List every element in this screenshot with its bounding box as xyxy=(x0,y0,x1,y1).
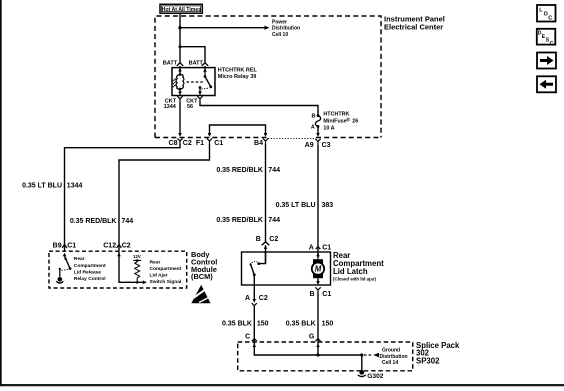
svg-text:C2: C2 xyxy=(183,140,192,147)
label Rear Compartment Lid Release Relay Control xyxy=(74,256,106,282)
svg-text:0.35 RED/BLK: 0.35 RED/BLK xyxy=(216,167,263,174)
label 0.35 RED/BLK 744 left xyxy=(70,218,133,225)
BCM lid release driver switch xyxy=(56,253,71,283)
svg-text:Power: Power xyxy=(272,19,287,25)
connector caret C12/C2 xyxy=(117,244,122,248)
svg-text:G302: G302 xyxy=(367,373,383,380)
label HTCHTRK MiniFuse 26 10 A xyxy=(323,111,358,131)
label C8 C2 xyxy=(169,140,192,147)
svg-text:26: 26 xyxy=(352,119,358,125)
connector A9/C3 terminal xyxy=(315,139,320,145)
svg-text:C2: C2 xyxy=(269,236,278,243)
arrow into splice C xyxy=(253,344,257,348)
label Power Distribution Cell 10 xyxy=(272,19,300,38)
svg-text:C1: C1 xyxy=(322,244,331,251)
svg-text:HTCHTRK REL: HTCHTRK REL xyxy=(218,68,258,74)
label B C2 xyxy=(256,236,279,243)
svg-text:C8: C8 xyxy=(169,140,178,147)
wire from Hot At All Times down xyxy=(179,13,181,63)
node battery feed tee xyxy=(179,45,182,48)
svg-text:B: B xyxy=(309,291,314,298)
label Instrument Panel Electrical Center xyxy=(384,15,445,32)
svg-text:A9: A9 xyxy=(305,142,314,149)
relay switch xyxy=(198,68,212,95)
label B C1 xyxy=(309,291,331,298)
ground distribution dashed reference arrow xyxy=(364,353,379,358)
label 0.35 RED/BLK 744 upper right xyxy=(216,167,280,174)
svg-text:C1: C1 xyxy=(322,291,331,298)
label Rear Compartment Lid Ajar Switch Signal xyxy=(150,260,182,285)
svg-text:B: B xyxy=(256,236,261,243)
svg-text:744: 744 xyxy=(268,167,280,174)
svg-text:Electrical Center: Electrical Center xyxy=(384,23,443,32)
wire CKT 56 to fuse xyxy=(200,102,318,115)
svg-text:Cell 14: Cell 14 xyxy=(382,360,398,366)
svg-text:Relay Control: Relay Control xyxy=(74,276,106,282)
wire jumper F1 to B4 xyxy=(208,125,268,137)
page left edge bar xyxy=(0,0,2,386)
connector caret BATT left xyxy=(177,63,183,66)
label C12 C2 xyxy=(103,242,130,249)
svg-text:744: 744 xyxy=(122,218,134,225)
wire BATT right into relay xyxy=(204,66,206,70)
svg-text:Compartment: Compartment xyxy=(74,263,106,269)
wire BATT left into relay xyxy=(179,66,181,70)
svg-text:C2: C2 xyxy=(122,242,131,249)
node junction to power distribution xyxy=(178,26,181,29)
svg-text:0.35 LT BLU: 0.35 LT BLU xyxy=(22,182,62,189)
svg-text:C: C xyxy=(548,16,552,22)
svg-text:Rear: Rear xyxy=(74,256,85,262)
label 0.35 LT BLU 383 xyxy=(276,202,334,209)
button next arrow xyxy=(537,53,556,69)
svg-text:A: A xyxy=(309,244,314,251)
svg-text:0.35 BLK: 0.35 BLK xyxy=(222,321,252,328)
node ground drop junction xyxy=(360,353,363,356)
connector caret A/C1 xyxy=(316,246,321,249)
svg-text:C2: C2 xyxy=(259,295,268,302)
button prev arrow xyxy=(537,76,556,92)
splice pack 302 dashed box xyxy=(238,342,413,371)
svg-text:Hot At All Times: Hot At All Times xyxy=(162,7,202,13)
latch ajar switch xyxy=(250,252,266,285)
label F1 C1 xyxy=(196,140,223,147)
arrow into splice G xyxy=(316,344,320,348)
terminal Y CKT 56 xyxy=(197,96,202,101)
svg-text:F1: F1 xyxy=(196,140,204,147)
svg-text:Switch Signal: Switch Signal xyxy=(150,279,182,285)
svg-text:G: G xyxy=(309,333,315,340)
svg-text:C: C xyxy=(550,41,554,47)
node resistor junction xyxy=(136,281,139,284)
label HTCHTRK REL Micro Relay 39 xyxy=(218,68,258,80)
connector caret B9/C1 xyxy=(62,244,67,248)
svg-text:C1: C1 xyxy=(67,242,76,249)
connector caret B/C2 xyxy=(262,242,270,245)
connector B4 terminal xyxy=(263,138,268,144)
svg-text:Lid Latch: Lid Latch xyxy=(333,267,368,276)
label A9 C3 xyxy=(305,142,331,149)
wire C2 to switch signal xyxy=(119,251,143,282)
svg-text:(BCM): (BCM) xyxy=(191,272,213,281)
svg-text:12V: 12V xyxy=(133,254,141,259)
svg-text:®: ® xyxy=(346,117,350,124)
page bottom border xyxy=(0,384,564,386)
label 0.35 RED/BLK 744 lower right xyxy=(216,217,280,224)
svg-text:Lid Ajar: Lid Ajar xyxy=(150,272,168,278)
label A C1 xyxy=(309,244,332,251)
rear compartment lid latch box xyxy=(242,252,331,285)
svg-text:B: B xyxy=(311,114,315,120)
power rail bar 12V xyxy=(133,259,141,262)
svg-text:Distribution: Distribution xyxy=(272,26,300,32)
svg-text:Compartment: Compartment xyxy=(150,266,182,272)
svg-text:0.35 LT BLU: 0.35 LT BLU xyxy=(276,202,316,209)
node G junction xyxy=(316,353,319,356)
wire splice bus xyxy=(254,342,361,356)
wire branch to second BATT xyxy=(180,47,205,63)
svg-text:(Closed with lid ajar): (Closed with lid ajar) xyxy=(333,277,376,282)
svg-text:Rear: Rear xyxy=(150,260,161,266)
svg-text:Ground: Ground xyxy=(382,348,400,354)
svg-text:0.35 BLK: 0.35 BLK xyxy=(286,321,316,328)
svg-text:Lid Release: Lid Release xyxy=(74,269,101,275)
svg-text:150: 150 xyxy=(322,321,334,328)
wire B/C1 to splice G xyxy=(317,293,319,342)
svg-text:Micro Relay 39: Micro Relay 39 xyxy=(218,74,257,80)
connector C8/C2 terminal xyxy=(177,138,182,144)
relay coil xyxy=(173,68,184,95)
svg-text:BATT: BATT xyxy=(189,60,204,66)
terminal Y CKT 1344 xyxy=(177,96,182,101)
svg-text:O: O xyxy=(544,12,548,18)
svg-text:C12: C12 xyxy=(103,242,116,249)
wire A9/C3 to A/C1 xyxy=(317,144,319,251)
label 0.35 LT BLU 1344 xyxy=(22,182,82,189)
button LOC xyxy=(537,5,556,22)
svg-text:150: 150 xyxy=(257,321,269,328)
instrument panel electrical center dashed box xyxy=(155,16,381,139)
label CKT 1344 xyxy=(164,98,177,110)
connector caret splice G xyxy=(316,339,321,342)
svg-text:744: 744 xyxy=(268,217,280,224)
wire A/C2 to splice C xyxy=(253,306,255,342)
fuse HTCHTRK MiniFuse 26 xyxy=(311,114,321,131)
svg-text:SP302: SP302 xyxy=(416,356,440,365)
wire G drop to bus xyxy=(317,342,319,356)
svg-text:10 A: 10 A xyxy=(323,126,334,132)
svg-text:A: A xyxy=(245,295,250,302)
svg-text:Cell 10: Cell 10 xyxy=(272,32,288,38)
wire fuse to A9 xyxy=(317,127,319,134)
svg-text:383: 383 xyxy=(322,202,334,209)
connector F1/C1 terminal xyxy=(207,138,212,144)
label 0.35 BLK 150 left xyxy=(222,321,269,328)
svg-text:56: 56 xyxy=(187,104,193,110)
svg-text:C: C xyxy=(245,333,250,340)
arrow into latch B/C2 xyxy=(264,245,268,249)
connector caret splice C xyxy=(252,339,257,342)
wire C8 to B9/C1 xyxy=(65,144,181,251)
relay coil-switch dashed link xyxy=(187,81,204,83)
svg-text:C3: C3 xyxy=(322,142,331,149)
relay HTCHTRK REL box xyxy=(172,68,215,96)
button DESC xyxy=(537,29,556,47)
wire CKT 1344 to C8 xyxy=(179,102,181,134)
label Body Control Module (BCM) xyxy=(191,250,217,281)
latch motor M xyxy=(312,252,324,285)
label Ground Distribution Cell 14 xyxy=(380,348,408,367)
resistor pull-up 12V xyxy=(135,261,140,283)
svg-text:0.35 RED/BLK: 0.35 RED/BLK xyxy=(216,217,263,224)
wire to ground G302 xyxy=(361,355,363,371)
latch exit A/C2 arrow xyxy=(252,285,257,306)
svg-text:1344: 1344 xyxy=(164,104,177,110)
BCM lid ajar input arrow xyxy=(117,253,121,257)
label Rear Compartment Lid Latch xyxy=(333,251,384,282)
wire B4 to B/C2 xyxy=(265,144,267,243)
svg-text:L: L xyxy=(539,8,543,14)
ground G302 xyxy=(358,370,366,377)
label B9 C1 xyxy=(53,242,77,249)
wire B/C2 into latch xyxy=(265,245,267,263)
svg-text:0.35 RED/BLK: 0.35 RED/BLK xyxy=(70,218,117,225)
svg-text:A: A xyxy=(311,125,315,131)
svg-text:Distribution: Distribution xyxy=(380,354,408,360)
hot-at-all-times tag xyxy=(160,4,202,13)
label 0.35 BLK 150 right xyxy=(286,321,334,328)
label A C2 xyxy=(245,295,268,302)
connector caret BATT right xyxy=(202,63,208,66)
svg-text:B4: B4 xyxy=(254,140,263,147)
svg-text:B9: B9 xyxy=(53,242,62,249)
wire C1 to C12/C2 xyxy=(119,144,210,251)
wire to power distribution with arrow xyxy=(180,26,270,30)
label CKT 56 xyxy=(186,98,198,110)
svg-text:BATT: BATT xyxy=(163,60,178,66)
svg-text:HTCHTRK: HTCHTRK xyxy=(323,111,349,117)
body control module dashed box xyxy=(49,251,187,288)
svg-text:MiniFuse: MiniFuse xyxy=(323,119,346,125)
latch exit B/C1 Y terminal xyxy=(315,287,320,292)
svg-text:1344: 1344 xyxy=(67,182,83,189)
svg-text:M: M xyxy=(315,265,322,274)
label Splice Pack 302 SP302 xyxy=(416,341,460,365)
svg-text:C1: C1 xyxy=(214,140,223,147)
ESD warning triangle xyxy=(191,285,211,303)
